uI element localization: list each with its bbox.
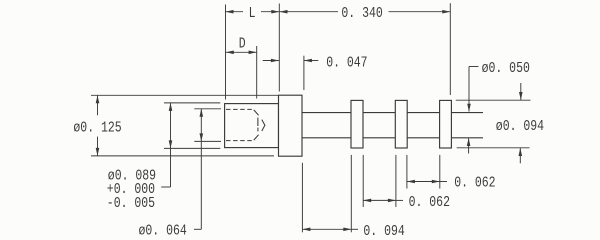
dimension ø0.089	[161, 103, 172, 187]
shaft bottom line	[302, 137, 483, 139]
svg-text:ø0. 125: ø0. 125	[73, 120, 121, 137]
bore cone upper dash	[254, 110, 259, 115]
dimension L	[226, 10, 280, 14]
dimension 0.062 upper	[407, 180, 447, 184]
label 0.340	[341, 6, 382, 23]
label L	[249, 6, 256, 23]
svg-text:ø0. 050: ø0. 050	[482, 61, 530, 78]
extension lines ø0.094 right	[456, 100, 531, 148]
extension line x=225.5 (L left / D left)	[225, 5, 227, 100]
extension line x=351.3 (0.094 right)	[350, 155, 352, 232]
svg-text:0. 094: 0. 094	[363, 224, 404, 240]
dimension 0.094 bottom	[302, 228, 358, 232]
label 0.062 upper	[454, 175, 495, 192]
extension line x=303.9 (0.047 right)	[303, 56, 305, 90]
svg-text:L: L	[249, 6, 256, 23]
extension line x=450.3 (0.340 right)	[449, 3, 451, 95]
bore depth dashed vertical	[257, 118, 259, 132]
label 0.062 lower	[409, 195, 450, 212]
dimension 0.340	[280, 10, 451, 14]
body ferrule outline	[225, 104, 279, 148]
bore cone lower dash	[254, 135, 259, 140]
extension line x=279.3 (L right / 0.340 left)	[278, 4, 280, 92]
svg-text:ø0. 094: ø0. 094	[496, 119, 544, 136]
svg-text:0. 340: 0. 340	[341, 6, 382, 23]
shaft top line	[302, 112, 483, 114]
label ø0.125	[73, 120, 121, 137]
extension lines ø0.064	[194, 109, 221, 142]
hidden bore bottom dashed	[226, 140, 254, 142]
label ø0.050	[482, 61, 530, 78]
extension line x=439.8 (0.062 upper right)	[439, 155, 441, 189]
flange outline	[279, 95, 303, 156]
svg-text:0. 062: 0. 062	[409, 195, 450, 212]
dimension 0.062 lower	[363, 199, 403, 203]
dimension 0.047	[263, 59, 319, 63]
label ø0.094 right	[496, 119, 544, 136]
svg-text:ø0. 064: ø0. 064	[139, 223, 187, 240]
ring 1	[351, 100, 363, 148]
svg-text:0. 062: 0. 062	[454, 175, 495, 192]
extension line x=256.7 (D right)	[256, 46, 258, 99]
label 0.047	[326, 55, 367, 72]
hidden bore top dashed	[226, 108, 254, 110]
leader ø0.050	[467, 67, 479, 154]
extension line x=406.9 (0.062 upper left)	[406, 155, 408, 189]
svg-text:-0. 005: -0. 005	[107, 196, 155, 213]
ring 3	[440, 100, 452, 148]
dimension D	[226, 51, 257, 55]
ring 2	[395, 100, 407, 148]
dimension ø0.094 right arrows	[519, 83, 523, 163]
drill point chevron	[262, 120, 265, 131]
dimension ø0.064	[194, 109, 203, 230]
extension line x=302.4 (0.094 left)	[301, 163, 303, 233]
label ø0.089 +0.000 -0.005	[107, 168, 156, 212]
svg-text:D: D	[239, 36, 246, 53]
svg-text:0. 047: 0. 047	[326, 55, 367, 72]
extension lines ø0.089	[164, 103, 220, 148]
extension line x=395.9 (0.062 lower right)	[395, 155, 397, 207]
extension lines ø0.125	[91, 95, 278, 156]
label ø0.064	[139, 223, 187, 240]
extension line x=363.2 (0.062 lower left)	[362, 155, 364, 207]
dimension ø0.125	[96, 95, 100, 156]
label D	[239, 36, 246, 53]
label 0.094 bottom	[363, 224, 404, 240]
